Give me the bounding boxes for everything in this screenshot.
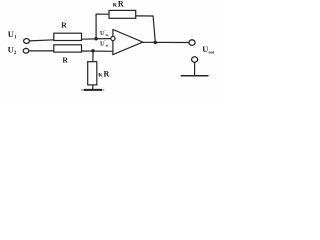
wire R2 to op-amp non-inverting input — [82, 50, 113, 52]
junction feedback / inverting input — [94, 37, 97, 40]
svg-text:U1: U1 — [8, 29, 17, 41]
resistor kR feedback — [109, 10, 136, 18]
wire reference terminal to ground — [194, 62, 196, 75]
resistor R2 — [54, 45, 82, 52]
wire U2 to R2 — [29, 50, 54, 52]
wire op-amp output — [143, 41, 189, 43]
svg-text:R: R — [61, 20, 67, 29]
svg-text:κR: κR — [98, 69, 109, 78]
svg-text:Uout: Uout — [202, 44, 215, 54]
inverting input bubble — [111, 36, 115, 40]
ground (right) — [180, 75, 209, 77]
svg-text:U′in: U′in — [100, 39, 109, 47]
svg-text:κR: κR — [113, 0, 124, 9]
node U2 input terminal — [23, 48, 29, 53]
junction output node — [154, 41, 157, 44]
wire feedback right drop to output node — [136, 16, 156, 43]
svg-text:U′in: U′in — [100, 29, 109, 37]
junction kR tap on non-inverting input — [91, 49, 94, 52]
wire kR to ground — [92, 85, 94, 89]
ground (below kR) — [81, 89, 104, 91]
node U1 input terminal — [24, 39, 30, 44]
wire feedback left riser — [96, 14, 109, 39]
wire non-inverting node down to kR — [92, 51, 94, 62]
svg-text:R: R — [62, 55, 68, 64]
svg-text:U2: U2 — [8, 45, 17, 57]
wire U1 to R1 — [30, 40, 55, 41]
wire R1 to op-amp inverting input — [82, 38, 113, 41]
op-amp A triangle — [113, 30, 143, 55]
node output reference terminal — [192, 57, 198, 63]
resistor R1 — [54, 33, 82, 40]
node output terminal — [189, 40, 195, 46]
resistor kR to ground — [88, 62, 97, 85]
